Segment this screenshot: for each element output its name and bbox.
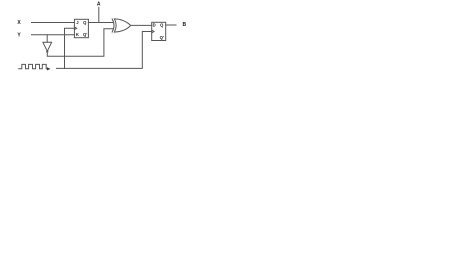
XOR gate G1 input arc: [112, 19, 114, 32]
clock waveform: [19, 64, 48, 68]
XOR gate G1 body: [114, 19, 130, 32]
wire clock branch to U1 clock: [65, 28, 75, 68]
svg-text:X: X: [17, 20, 21, 26]
inverter (NOT gate, pointing down): [43, 42, 52, 51]
clock arrowhead: [47, 67, 50, 70]
svg-text:D: D: [153, 23, 156, 28]
svg-text:Q: Q: [83, 20, 87, 25]
flip-flop U2 (D): [152, 22, 166, 40]
wire U1 Q output to XOR upper input: [88, 22, 113, 24]
svg-text:Y: Y: [17, 32, 21, 38]
flip-flop U1 (J-K): [74, 19, 88, 37]
wire clock line to U2 clock: [57, 32, 152, 69]
svg-text:J: J: [76, 20, 79, 25]
svg-text:Q′: Q′: [160, 35, 164, 40]
wire Y to K input: [32, 34, 75, 36]
svg-text:B: B: [182, 22, 186, 28]
node A stub wire: [98, 7, 100, 22]
wire U2 Q output: [166, 24, 176, 26]
svg-text:K: K: [76, 32, 79, 37]
wire XOR output to D input: [131, 24, 152, 26]
U2 clock marker: [152, 30, 154, 33]
svg-text:Q: Q: [160, 23, 164, 28]
svg-text:Q′: Q′: [83, 32, 87, 37]
svg-text:A: A: [97, 2, 101, 8]
wire inverter output to XOR lower input: [47, 29, 113, 57]
wire Y branch down to inverter: [46, 35, 48, 43]
U1 clock marker: [74, 27, 76, 30]
wire X to J input: [32, 22, 75, 24]
